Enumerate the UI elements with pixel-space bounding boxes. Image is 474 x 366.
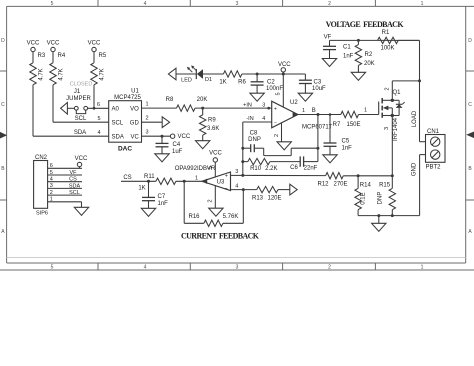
svg-text:R9: R9 bbox=[208, 118, 216, 124]
frame zone number 5 bottom bbox=[51, 265, 54, 271]
port arrow R13 bbox=[290, 184, 297, 195]
frame zone number 2 bottom bbox=[328, 265, 331, 271]
jumper J1 port triangle bbox=[61, 103, 68, 115]
svg-text:R15: R15 bbox=[379, 182, 391, 188]
net label SDA at CN2 bbox=[69, 183, 81, 189]
label DAC bbox=[118, 146, 132, 153]
wire -IN vertical bbox=[241, 122, 244, 177]
frame arrow left bbox=[0, 132, 7, 139]
svg-text:10uF: 10uF bbox=[312, 86, 326, 92]
pin number 5 U2 bbox=[276, 92, 282, 95]
net label CS at CN2 bbox=[69, 177, 77, 183]
transistor Q1 drain bbox=[382, 99, 394, 102]
svg-text:R16: R16 bbox=[188, 214, 200, 220]
VCC symbol at CN2 bbox=[75, 156, 88, 168]
svg-text:CURRENT FEEDBACK: CURRENT FEEDBACK bbox=[181, 232, 260, 241]
wire U3 pin3 bbox=[231, 174, 243, 176]
svg-text:4: 4 bbox=[144, 1, 147, 7]
svg-text:R11: R11 bbox=[144, 174, 155, 180]
resistor R9 bbox=[200, 108, 220, 135]
wire D1 to R6 bbox=[203, 73, 223, 75]
frame zone letter A left bbox=[1, 229, 5, 235]
pin number 5 U3 bbox=[208, 166, 214, 169]
svg-text:100K: 100K bbox=[380, 46, 394, 52]
svg-text:6: 6 bbox=[50, 163, 53, 169]
frame zone letter C right bbox=[468, 102, 472, 108]
svg-text:C: C bbox=[1, 102, 5, 108]
net label SCL bbox=[75, 116, 87, 122]
svg-text:3: 3 bbox=[235, 169, 238, 175]
svg-text:4: 4 bbox=[50, 177, 53, 183]
CN2 pin number 3 bbox=[50, 183, 53, 189]
svg-text:R8: R8 bbox=[166, 97, 174, 103]
svg-text:4: 4 bbox=[97, 130, 100, 136]
svg-text:VCC: VCC bbox=[209, 151, 222, 157]
pin number 1 U2 output bbox=[302, 108, 305, 114]
U1 pin name A0 bbox=[112, 106, 120, 112]
svg-text:MCP4725: MCP4725 bbox=[114, 95, 141, 101]
frame zone ticks right bbox=[466, 71, 474, 200]
svg-text:R4: R4 bbox=[58, 53, 66, 59]
svg-text:100nF: 100nF bbox=[266, 86, 283, 92]
svg-text:SDA: SDA bbox=[69, 183, 81, 189]
svg-text:MCP6071T: MCP6071T bbox=[302, 124, 333, 130]
svg-text:4: 4 bbox=[144, 265, 147, 271]
wire CS to U3 output bbox=[121, 180, 156, 183]
frame zone ticks left bbox=[0, 71, 7, 200]
svg-text:1: 1 bbox=[50, 197, 53, 203]
jumper J1 pins bbox=[74, 106, 87, 113]
label Q1 bbox=[393, 90, 402, 96]
CN2 pin number 1 bbox=[50, 197, 53, 203]
ground below R9 bbox=[196, 135, 210, 149]
svg-text:C1: C1 bbox=[343, 44, 351, 50]
svg-text:3: 3 bbox=[384, 127, 390, 130]
ground below R2 bbox=[351, 65, 365, 80]
svg-text:SCL: SCL bbox=[75, 116, 87, 122]
ground below C4 bbox=[155, 147, 169, 162]
svg-text:SCL: SCL bbox=[112, 120, 124, 126]
svg-text:R14: R14 bbox=[360, 182, 372, 188]
svg-text:2: 2 bbox=[274, 134, 280, 137]
label CN1 bbox=[427, 129, 440, 135]
svg-text:D: D bbox=[468, 38, 472, 44]
svg-text:R10: R10 bbox=[250, 166, 262, 172]
wire Q1 source down bbox=[391, 116, 393, 176]
svg-text:VCC: VCC bbox=[278, 62, 291, 68]
svg-text:1: 1 bbox=[302, 108, 305, 114]
frame zone ticks bottom bbox=[98, 263, 375, 270]
svg-text:LOAD: LOAD bbox=[412, 110, 418, 127]
wire U1 VC to VCC bbox=[142, 135, 171, 138]
svg-text:3: 3 bbox=[236, 265, 239, 271]
svg-text:5: 5 bbox=[276, 92, 282, 95]
svg-text:R6: R6 bbox=[238, 80, 246, 86]
VCC symbol at U3 bbox=[209, 151, 222, 178]
label SIP6 bbox=[36, 211, 48, 217]
label U2 bbox=[290, 100, 298, 106]
resistor R16 bbox=[184, 181, 243, 226]
svg-text:1: 1 bbox=[421, 265, 424, 271]
resistor R2 bbox=[355, 40, 374, 66]
U2 V- ground bbox=[277, 123, 291, 150]
svg-text:+: + bbox=[274, 107, 277, 113]
LED D1 light arrows bbox=[187, 65, 197, 72]
ground below sense resistors bbox=[372, 216, 386, 232]
svg-text:-IN: -IN bbox=[246, 116, 253, 122]
wire R13 to port bbox=[278, 189, 290, 191]
frame zone number 1 top bbox=[421, 1, 424, 7]
svg-text:2: 2 bbox=[328, 1, 331, 7]
svg-text:SDA: SDA bbox=[112, 134, 124, 140]
svg-text:C3: C3 bbox=[314, 80, 322, 86]
svg-text:JUMPER: JUMPER bbox=[66, 96, 91, 102]
svg-text:1nF: 1nF bbox=[158, 201, 169, 207]
svg-text:5.76K: 5.76K bbox=[223, 214, 239, 220]
svg-text:+IN: +IN bbox=[243, 102, 252, 108]
frame zone letter B left bbox=[1, 166, 5, 172]
svg-text:VCC: VCC bbox=[75, 156, 88, 162]
wire J1 port to pin bbox=[67, 107, 74, 109]
svg-text:20K: 20K bbox=[197, 97, 208, 103]
svg-text:SCL: SCL bbox=[69, 190, 80, 196]
capacitor C2 bbox=[251, 74, 284, 92]
CN2 pin number 6 bbox=[50, 163, 53, 169]
svg-text:R1: R1 bbox=[382, 30, 390, 36]
wire C8 to node B vertical bbox=[254, 148, 318, 155]
wire sense bottom rail bbox=[358, 210, 420, 217]
wire R11 to U3 bbox=[176, 180, 202, 183]
svg-text:1: 1 bbox=[421, 1, 424, 7]
svg-text:VCC: VCC bbox=[178, 134, 191, 140]
svg-text:D: D bbox=[1, 38, 5, 44]
resistor R5 bbox=[91, 53, 107, 85]
frame zone ticks top bbox=[98, 0, 375, 6]
frame zone number 2 top bbox=[328, 1, 331, 7]
label CLOSED bbox=[70, 82, 93, 88]
svg-text:4.7K: 4.7K bbox=[100, 68, 106, 80]
frame zone letter D right bbox=[468, 38, 472, 44]
port arrow U1 GD bbox=[162, 117, 169, 128]
svg-text:3: 3 bbox=[50, 183, 53, 189]
resistor R10 bbox=[248, 158, 278, 172]
svg-text:C: C bbox=[468, 102, 472, 108]
resistor R11 bbox=[138, 174, 176, 192]
capacitor C6 bbox=[290, 156, 318, 171]
wire CN2 pin1 to ground bbox=[81, 202, 83, 208]
svg-text:1nF: 1nF bbox=[342, 145, 353, 151]
pin number 3 U2 bbox=[262, 102, 265, 108]
wire U1 VO to R8 bbox=[142, 107, 177, 109]
resistor R3 bbox=[30, 53, 46, 85]
svg-text:R5: R5 bbox=[99, 53, 107, 59]
svg-text:CS: CS bbox=[69, 177, 77, 183]
wire VF rail bbox=[330, 39, 420, 42]
svg-text:2: 2 bbox=[385, 87, 391, 90]
svg-text:6: 6 bbox=[97, 102, 100, 108]
resistor R15 bbox=[378, 176, 396, 210]
port arrow LED bbox=[168, 68, 176, 80]
VCC symbol at U1 VC bbox=[170, 134, 190, 140]
connector CN1 bbox=[426, 135, 446, 163]
CN2 pin number 4 bbox=[50, 177, 53, 183]
svg-text:1: 1 bbox=[145, 102, 148, 108]
svg-text:LED: LED bbox=[181, 78, 192, 84]
wire R5 to bus bbox=[93, 85, 95, 109]
wire node B vertical bbox=[316, 115, 319, 162]
svg-text:R13: R13 bbox=[252, 195, 264, 201]
pin number 3 U3 bbox=[235, 169, 238, 175]
svg-text:GND: GND bbox=[412, 162, 418, 176]
svg-text:22nF: 22nF bbox=[304, 165, 318, 171]
Q1 body diode bbox=[392, 100, 404, 115]
wire VCC rail to U2 V+ bbox=[282, 74, 284, 107]
frame zone letter A right bbox=[468, 229, 472, 235]
label CN2 bbox=[35, 155, 48, 161]
wire SCL bbox=[53, 121, 109, 123]
frame border inner bbox=[7, 6, 474, 263]
svg-text:U2: U2 bbox=[290, 100, 298, 106]
wire SDA bbox=[33, 135, 109, 137]
frame arrow right bbox=[466, 132, 474, 139]
VCC symbol on rail bbox=[278, 62, 291, 74]
CN2 pin number 2 bbox=[50, 190, 53, 196]
op-amp U3 bbox=[202, 172, 231, 192]
svg-text:B: B bbox=[312, 108, 316, 114]
label MCP4725 bbox=[114, 95, 141, 101]
svg-text:−: − bbox=[274, 120, 277, 126]
net label SCL at CN2 bbox=[69, 190, 80, 196]
capacitor C5 bbox=[324, 115, 353, 152]
svg-text:4: 4 bbox=[262, 116, 265, 122]
label OPA992IDBVR bbox=[175, 166, 216, 172]
frame zone number 5 top bbox=[51, 1, 54, 7]
svg-text:1uF: 1uF bbox=[172, 149, 183, 155]
svg-text:CLOSED: CLOSED bbox=[70, 82, 93, 88]
svg-text:+: + bbox=[225, 174, 228, 180]
svg-text:VCC: VCC bbox=[47, 41, 60, 47]
wire drain branch bbox=[392, 81, 419, 100]
svg-text:GD: GD bbox=[130, 120, 140, 126]
VCC symbol above R5 bbox=[88, 41, 101, 63]
svg-text:C7: C7 bbox=[158, 194, 166, 200]
svg-text:−: − bbox=[225, 186, 228, 192]
pin number 6 U1 bbox=[97, 102, 100, 108]
resistor R12 bbox=[317, 173, 347, 188]
frame zone letter D left bbox=[1, 38, 5, 44]
pin number 3 Q1 bbox=[384, 127, 390, 130]
ground below C3 bbox=[298, 84, 312, 102]
svg-text:VF: VF bbox=[324, 34, 332, 40]
wire R8 to U2 +IN bbox=[195, 107, 272, 110]
svg-text:DNP: DNP bbox=[378, 192, 384, 205]
resistor R4 bbox=[50, 53, 66, 85]
svg-text:3: 3 bbox=[145, 130, 148, 136]
svg-text:2: 2 bbox=[208, 199, 214, 202]
svg-text:1: 1 bbox=[364, 108, 367, 114]
resistor R7 bbox=[333, 111, 361, 128]
svg-text:2: 2 bbox=[50, 190, 53, 196]
resistor R14 bbox=[355, 176, 372, 210]
label LED bbox=[181, 78, 192, 84]
U1 pin name VO bbox=[130, 106, 139, 112]
svg-text:J1: J1 bbox=[74, 89, 81, 95]
svg-text:2.2K: 2.2K bbox=[265, 166, 277, 172]
svg-text:U1: U1 bbox=[131, 89, 139, 95]
transistor Q1 channel bbox=[381, 98, 383, 118]
pin number 4 U1 bbox=[97, 130, 100, 136]
capacitor C1 bbox=[323, 40, 354, 59]
ground below C2 bbox=[250, 85, 264, 101]
svg-text:1nF: 1nF bbox=[343, 54, 354, 60]
label GND bbox=[412, 162, 418, 176]
svg-text:20K: 20K bbox=[364, 61, 375, 67]
resistor R6 bbox=[219, 71, 246, 86]
label LOAD bbox=[412, 110, 418, 127]
capacitor C3 bbox=[299, 74, 326, 92]
svg-text:C2: C2 bbox=[267, 80, 275, 86]
svg-text:5: 5 bbox=[51, 1, 54, 7]
svg-text:VO: VO bbox=[130, 106, 139, 112]
pin number 5 U1 bbox=[97, 116, 100, 122]
svg-text:2: 2 bbox=[328, 265, 331, 271]
frame zone number 1 bottom bbox=[421, 265, 424, 271]
header CURRENT FEEDBACK bbox=[181, 232, 260, 241]
transistor Q1 substrate arrow bbox=[383, 106, 393, 116]
net label -IN bbox=[246, 116, 253, 122]
capacitor C7 bbox=[142, 181, 168, 207]
pin number 4 U3 bbox=[235, 184, 238, 190]
VCC symbol above R4 bbox=[47, 41, 60, 63]
VCC symbol above R3 bbox=[27, 41, 40, 63]
node B bbox=[312, 108, 316, 114]
svg-text:U3: U3 bbox=[217, 180, 225, 186]
svg-text:4: 4 bbox=[235, 184, 238, 190]
pin number 1 Q1 bbox=[364, 108, 367, 114]
wire LOAD into CN1 bbox=[420, 141, 426, 143]
svg-text:VCC: VCC bbox=[27, 41, 40, 47]
frame zone letter C left bbox=[1, 102, 5, 108]
pin number 2 U2 bbox=[274, 134, 280, 137]
wire U1 GD bbox=[142, 121, 163, 123]
frame zone number 3 top bbox=[236, 1, 239, 7]
IC U1 MCP4725 box bbox=[109, 101, 142, 143]
svg-text:120E: 120E bbox=[267, 195, 281, 201]
svg-text:DNP: DNP bbox=[248, 137, 261, 143]
svg-text:C8: C8 bbox=[250, 131, 258, 137]
wire R3 to bus bbox=[32, 85, 34, 136]
net label SDA bbox=[74, 130, 86, 136]
wire GND into CN1 bbox=[420, 155, 426, 216]
op-amp U2 bbox=[272, 101, 298, 128]
svg-text:5: 5 bbox=[208, 166, 214, 169]
resistor R1 bbox=[378, 30, 399, 52]
svg-text:R3: R3 bbox=[38, 53, 46, 59]
pin number 4 U2 bbox=[262, 116, 265, 122]
svg-text:5: 5 bbox=[97, 116, 100, 122]
CN2 pin number 5 bbox=[50, 170, 53, 176]
pin number 3 U1 bbox=[145, 130, 148, 136]
svg-text:3.6K: 3.6K bbox=[207, 126, 219, 132]
wire R12 to sense rail bbox=[343, 174, 394, 177]
svg-text:D1: D1 bbox=[205, 77, 212, 83]
svg-text:C5: C5 bbox=[342, 139, 350, 145]
svg-text:270E: 270E bbox=[333, 181, 347, 187]
svg-text:Q1: Q1 bbox=[393, 90, 402, 96]
frame zone letter B right bbox=[468, 166, 472, 172]
svg-text:VF: VF bbox=[69, 170, 77, 176]
svg-text:CN2: CN2 bbox=[35, 155, 48, 161]
svg-text:4.7K: 4.7K bbox=[59, 68, 65, 80]
U1 pin name SDA bbox=[112, 134, 124, 140]
label IRF1404 bbox=[393, 117, 399, 141]
svg-text:R2: R2 bbox=[365, 52, 373, 58]
svg-text:IRF1404: IRF1404 bbox=[393, 117, 399, 141]
CN2 pin wires bbox=[48, 168, 82, 202]
svg-text:CS: CS bbox=[123, 175, 131, 181]
capacitor C8 bbox=[243, 131, 261, 153]
svg-text:1K: 1K bbox=[138, 186, 145, 192]
svg-text:VCC: VCC bbox=[88, 41, 101, 47]
frame zone number 3 bottom bbox=[236, 265, 239, 271]
pin number 1 U1 bbox=[145, 102, 148, 108]
label MCP6071T bbox=[302, 124, 333, 130]
net label VF at CN2 bbox=[69, 170, 77, 176]
pin number 1 U3 bbox=[195, 175, 198, 181]
ground below C7 bbox=[141, 201, 155, 217]
svg-text:A0: A0 bbox=[112, 106, 120, 112]
label PBT2 bbox=[425, 164, 441, 170]
wire J1 to U1 A0 bbox=[88, 107, 109, 110]
svg-text:R12: R12 bbox=[317, 181, 329, 187]
svg-text:DAC: DAC bbox=[118, 146, 132, 153]
net label VF bbox=[324, 34, 332, 40]
svg-text:SIP6: SIP6 bbox=[36, 211, 48, 217]
wire R1 to LOAD bbox=[398, 40, 421, 141]
frame zone number 4 top bbox=[144, 1, 147, 7]
svg-text:SDA: SDA bbox=[74, 130, 86, 136]
wire R6 to VCC rail bbox=[242, 73, 306, 76]
U1 pin name VC bbox=[130, 134, 139, 140]
svg-text:0.1E: 0.1E bbox=[361, 192, 367, 204]
svg-text:VC: VC bbox=[130, 134, 139, 140]
ground below C1 bbox=[322, 50, 336, 67]
label D1 bbox=[205, 77, 212, 83]
resistor R8 bbox=[166, 97, 208, 111]
U3 ground bbox=[209, 186, 223, 216]
connector CN2 box bbox=[34, 161, 48, 209]
svg-text:5: 5 bbox=[51, 265, 54, 271]
label U1 bbox=[131, 89, 139, 95]
ground below CN2 bbox=[74, 207, 88, 215]
svg-text:1: 1 bbox=[195, 175, 198, 181]
svg-text:VOLTAGE FEEDBACK: VOLTAGE FEEDBACK bbox=[326, 20, 405, 29]
wire pin3 row to R12 bbox=[243, 174, 326, 176]
ground below C5 bbox=[323, 146, 337, 163]
capacitor C4 bbox=[156, 136, 183, 155]
svg-text:C6: C6 bbox=[290, 165, 298, 171]
pin number 2 U3 bbox=[208, 199, 214, 202]
label J1 bbox=[74, 89, 81, 95]
transistor Q1 source bbox=[382, 114, 394, 117]
transistor Q1 gate bbox=[359, 102, 379, 115]
svg-text:2: 2 bbox=[145, 116, 148, 122]
svg-text:R7: R7 bbox=[333, 122, 341, 128]
wire C6 to node B bbox=[304, 161, 318, 163]
wire R4 to bus bbox=[52, 85, 54, 122]
U1 pin name GD bbox=[130, 120, 140, 126]
label JUMPER bbox=[66, 96, 91, 102]
